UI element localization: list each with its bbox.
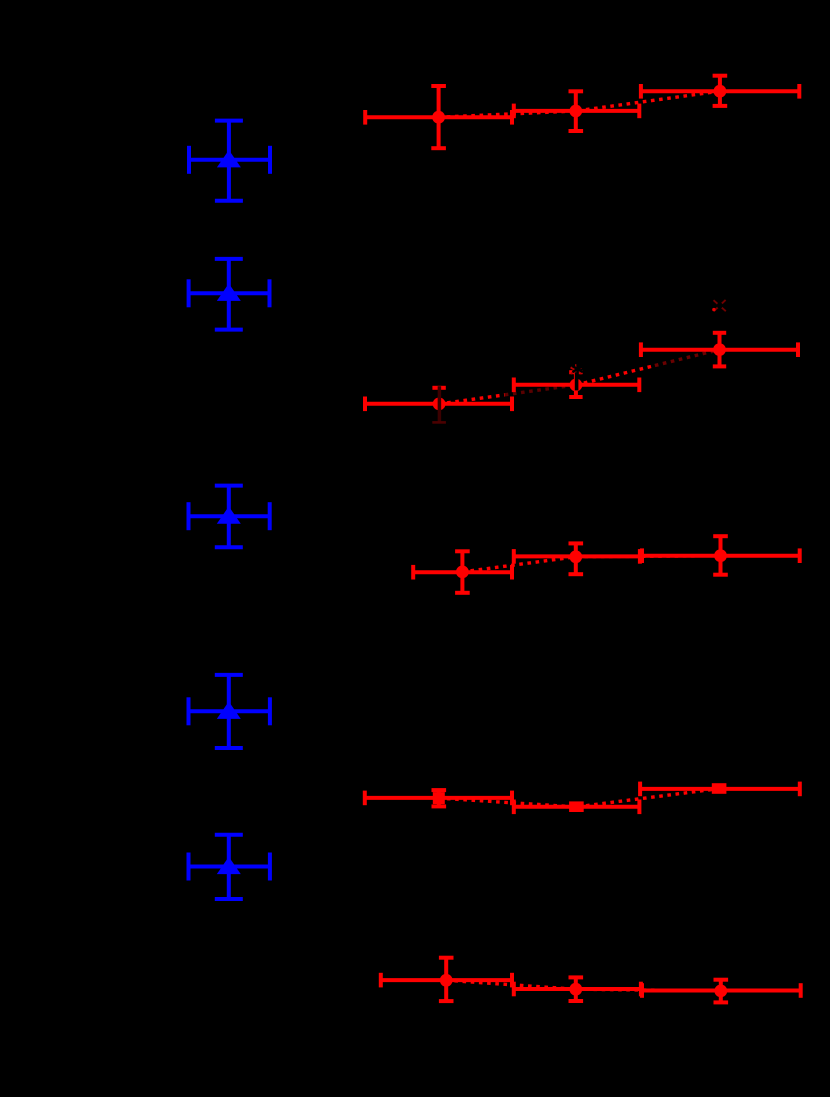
red series 2 point 1 y-error dark bottom cap <box>432 421 446 424</box>
red series 2 point 1 y-error top cap (red) <box>432 386 445 390</box>
red series 2 point 1 x-error bar <box>365 397 512 412</box>
red series 1 dotted connector <box>439 91 720 117</box>
blue point B1 y-error bar <box>215 121 243 201</box>
red series 5 point 2 marker <box>569 983 582 996</box>
red series 2 point 3 marker <box>713 343 726 356</box>
red series 3 point 1 x-error bar <box>413 565 512 580</box>
red series 2 point 3 asterisk bright dot <box>712 308 715 311</box>
red series 3 point 2 y-error bar <box>569 543 584 574</box>
red series 3 point 3 marker <box>714 549 727 562</box>
blue point B4 x-error bar <box>189 697 270 725</box>
red series 4 point 2 x-error bar <box>514 800 640 815</box>
red series 5 point 3 marker <box>714 985 727 998</box>
red series 2 dotted connector segment 1 bright part <box>439 395 505 404</box>
red series 2 point 2 red asterisk <box>571 364 582 377</box>
red series 2 point 1 y-error dark line (black twin) <box>438 386 442 422</box>
red series 5 dotted connector <box>446 980 721 991</box>
red series 2 point 2 y-error bar (red, short) <box>569 372 582 397</box>
red series 3 point 3 x-error bar <box>642 548 800 563</box>
red series 1 point 2 marker <box>569 105 582 118</box>
blue point B3 triangle marker <box>217 506 241 523</box>
red series 3 point 2 x-error bar <box>514 549 640 564</box>
blue point B4 y-error bar <box>215 675 243 748</box>
red series 1 point 1 x-error bar <box>365 110 512 125</box>
red series 4 point 2 y-error bar <box>569 803 584 810</box>
red series 1 point 3 x-error bar <box>641 84 799 99</box>
red series 1 point 1 marker <box>432 111 445 124</box>
red series 1 point 3 y-error bar <box>713 76 728 106</box>
red series 5 point 3 x-error bar <box>642 983 801 998</box>
blue point B3 y-error bar <box>215 486 243 548</box>
red series 5 point 2 x-error bar <box>514 982 641 997</box>
red series 4 point 3 x-error bar <box>640 782 800 797</box>
red series 4 point 1 marker <box>433 792 445 804</box>
blue point B1 triangle marker <box>217 150 241 167</box>
red series 4 point 1 y-error bar <box>432 790 447 806</box>
red series 3 dotted connector <box>462 556 720 572</box>
red series 2 point 1 marker <box>433 398 446 411</box>
red series 4 point 1 x-error bar <box>365 791 512 806</box>
red series 2 dotted connector segment 1 dark part <box>505 385 576 395</box>
blue point B5 triangle marker <box>217 857 241 874</box>
blue point B3 x-error bar <box>189 502 270 530</box>
red series 1 point 2 y-error bar <box>569 91 584 131</box>
red series 1 point 3 marker <box>714 85 727 98</box>
red series 3 point 3 y-error bar <box>713 536 728 575</box>
blue point B2 x-error bar <box>189 279 270 307</box>
red series 2 point 2 black y-error line overlay <box>575 372 579 390</box>
red series 2 dotted connector segment 2 dark part <box>655 350 720 366</box>
red series 2 point 3 x-error bar <box>641 342 798 357</box>
red series 5 point 1 marker <box>440 974 453 987</box>
blue point B5 x-error bar <box>189 853 270 881</box>
red series 2 point 3 y-error bar <box>713 333 726 367</box>
red series 5 point 3 y-error bar <box>714 980 729 1003</box>
red series 2 point 2 marker <box>570 379 583 392</box>
blue point B1 x-error bar <box>189 146 270 174</box>
red series 4 dotted connector <box>439 789 719 807</box>
red series 5 point 1 y-error bar <box>439 958 454 1001</box>
red series 2 dotted connector segment 2 bright part <box>576 366 655 385</box>
red series 2 point 3 dark asterisk black center overlay <box>717 303 723 309</box>
red series 3 point 1 y-error bar <box>455 551 470 593</box>
red series 2 point 3 dark asterisk (significance) <box>714 300 726 311</box>
red series 2 point 2 x-error bar <box>514 378 640 393</box>
blue point B2 y-error bar <box>215 259 243 330</box>
red series 5 point 1 x-error bar <box>381 973 512 988</box>
blue point B5 y-error bar <box>215 835 243 899</box>
red series 3 point 1 marker <box>456 566 469 579</box>
red series 3 point 2 marker <box>569 550 582 563</box>
red series 1 point 2 x-error bar <box>514 104 640 119</box>
red series 4 point 3 marker <box>713 784 725 794</box>
blue point B4 triangle marker <box>217 702 241 719</box>
red series 1 point 1 y-error bar <box>431 86 446 148</box>
red series 2 point 2 black asterisk overlay <box>572 363 582 375</box>
red series 4 point 3 y-error bar <box>712 785 727 792</box>
red series 4 point 2 marker <box>570 802 582 812</box>
blue point B2 triangle marker <box>217 284 241 301</box>
red series 5 point 2 y-error bar <box>569 977 584 1001</box>
